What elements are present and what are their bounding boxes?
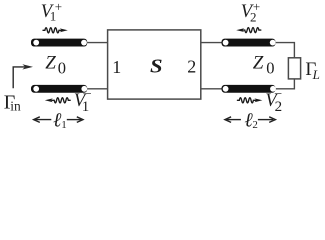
svg-text:0: 0 (266, 58, 274, 77)
svg-text:2: 2 (187, 57, 196, 77)
svg-text:1: 1 (82, 99, 90, 115)
svg-text:0: 0 (58, 58, 66, 77)
svg-text:Z: Z (253, 53, 264, 74)
svg-text:+: + (55, 0, 62, 14)
svg-text:1: 1 (61, 119, 67, 131)
svg-text:+: + (253, 0, 260, 14)
svg-text:−: − (275, 86, 282, 101)
svg-text:L: L (312, 67, 320, 82)
svg-text:S: S (150, 55, 163, 77)
svg-text:−: − (84, 86, 91, 101)
svg-text:Z: Z (45, 53, 56, 74)
svg-text:2: 2 (252, 119, 258, 131)
svg-text:2: 2 (275, 99, 283, 115)
svg-text:1: 1 (112, 57, 121, 77)
svg-text:in: in (10, 98, 21, 113)
